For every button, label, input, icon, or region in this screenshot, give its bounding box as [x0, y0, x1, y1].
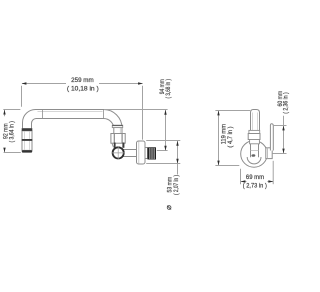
- nipple: [145, 147, 148, 159]
- svg-text:( 2,07 in ): ( 2,07 in ): [173, 175, 180, 195]
- elbow underside arc: [247, 157, 261, 164]
- flange circle: [241, 141, 268, 168]
- diameter symbol: [167, 206, 171, 210]
- valve collar under bend: [112, 125, 122, 127]
- dim 92 mm: [3, 110, 21, 153]
- wall flange (side): [137, 141, 146, 164]
- clevis legs (dark): [114, 143, 116, 148]
- riser band: [249, 130, 260, 133]
- nozzle middle dark band: [22, 139, 33, 141]
- arrow 119 bottom: [217, 161, 219, 166]
- dim 94 mm: [104, 110, 168, 151]
- arrow 53 bottom: [176, 159, 178, 164]
- outlet shadow: [251, 154, 255, 157]
- valve body block: [111, 134, 125, 144]
- arrow 259 left: [22, 82, 27, 84]
- neck inner hline: [251, 150, 259, 152]
- text 60 mm (rotated): [277, 91, 284, 107]
- arrow 92 top: [3, 110, 5, 115]
- dim 119 mm: [215, 111, 250, 166]
- arrow 119 top: [217, 111, 219, 116]
- arrow 53 top: [176, 141, 178, 146]
- swivel ball joint: [113, 147, 124, 158]
- right bend outer: [104, 109, 123, 133]
- text 53 mm (rotated): [167, 177, 174, 193]
- nozzle top dark band: [22, 128, 33, 131]
- riser tube: [251, 110, 260, 134]
- spout tube top edge: [36, 109, 104, 111]
- arrow 94 bottom: [164, 146, 166, 151]
- dim 69 mm: [241, 161, 274, 184]
- svg-text:( 4,7 in ): ( 4,7 in ): [227, 126, 235, 147]
- flange inner line: [138, 141, 140, 163]
- arrow 92 bottom: [3, 148, 5, 153]
- weld seam left: [42, 110, 44, 119]
- text 69 mm: [246, 174, 264, 181]
- dim 259 mm line: [22, 84, 143, 140]
- svg-text:259 mm: 259 mm: [71, 77, 94, 84]
- lever handle: [270, 124, 273, 151]
- spout tube inner highlight: [38, 111, 103, 113]
- left bend outer: [22, 109, 36, 128]
- arrow 259 right: [138, 82, 143, 84]
- outlet pipe to wall: [123, 150, 137, 157]
- arrow 69 left: [241, 180, 246, 182]
- right bend inner: [104, 118, 114, 133]
- svg-text:( 10,18 in ): ( 10,18 in ): [67, 85, 99, 92]
- valve body (front): [266, 148, 272, 159]
- thread stripes: [150, 148, 154, 159]
- nozzle bottom aerator band: [22, 150, 32, 152]
- svg-text:( 3,64 in ): ( 3,64 in ): [9, 121, 16, 143]
- arrow 69 right: [268, 180, 273, 182]
- arrow 60 top: [282, 126, 284, 131]
- neck into circle: [251, 144, 259, 157]
- riser inner lines: [253, 113, 258, 131]
- dim 60 mm: [273, 116, 287, 154]
- left bend inner: [32, 119, 37, 129]
- spout tube bottom edge: [36, 118, 104, 120]
- weld seam right: [103, 110, 105, 119]
- arrow 94 top: [164, 110, 166, 115]
- nozzle inner lines: [25, 131, 30, 150]
- svg-text:( 2,36 in ): ( 2,36 in ): [283, 92, 290, 114]
- text 94 mm (rotated): [160, 79, 167, 94]
- threaded connector: [148, 147, 157, 159]
- collar step: [250, 140, 260, 144]
- downpipe inner line: [119, 126, 121, 134]
- collar nut: [248, 134, 260, 140]
- arrow 60 bottom: [282, 149, 284, 154]
- valve body taper to ball: [112, 143, 124, 147]
- nozzle body: [22, 131, 32, 151]
- text 92 mm (rotated): [3, 123, 10, 139]
- text 119 mm (rotated): [220, 124, 228, 144]
- ext line left of 259: [21, 86, 23, 107]
- svg-text:69 mm: 69 mm: [246, 174, 264, 181]
- ext line right of 259: [142, 86, 144, 140]
- svg-text:( 2,73 in ): ( 2,73 in ): [243, 182, 267, 190]
- svg-text:( 3,68 in ): ( 3,68 in ): [165, 79, 172, 99]
- text 259 mm: [71, 77, 94, 84]
- ball crosshair: [112, 146, 125, 159]
- dim diameter 53 mm: [146, 141, 180, 175]
- valve body inner lines: [114, 134, 122, 144]
